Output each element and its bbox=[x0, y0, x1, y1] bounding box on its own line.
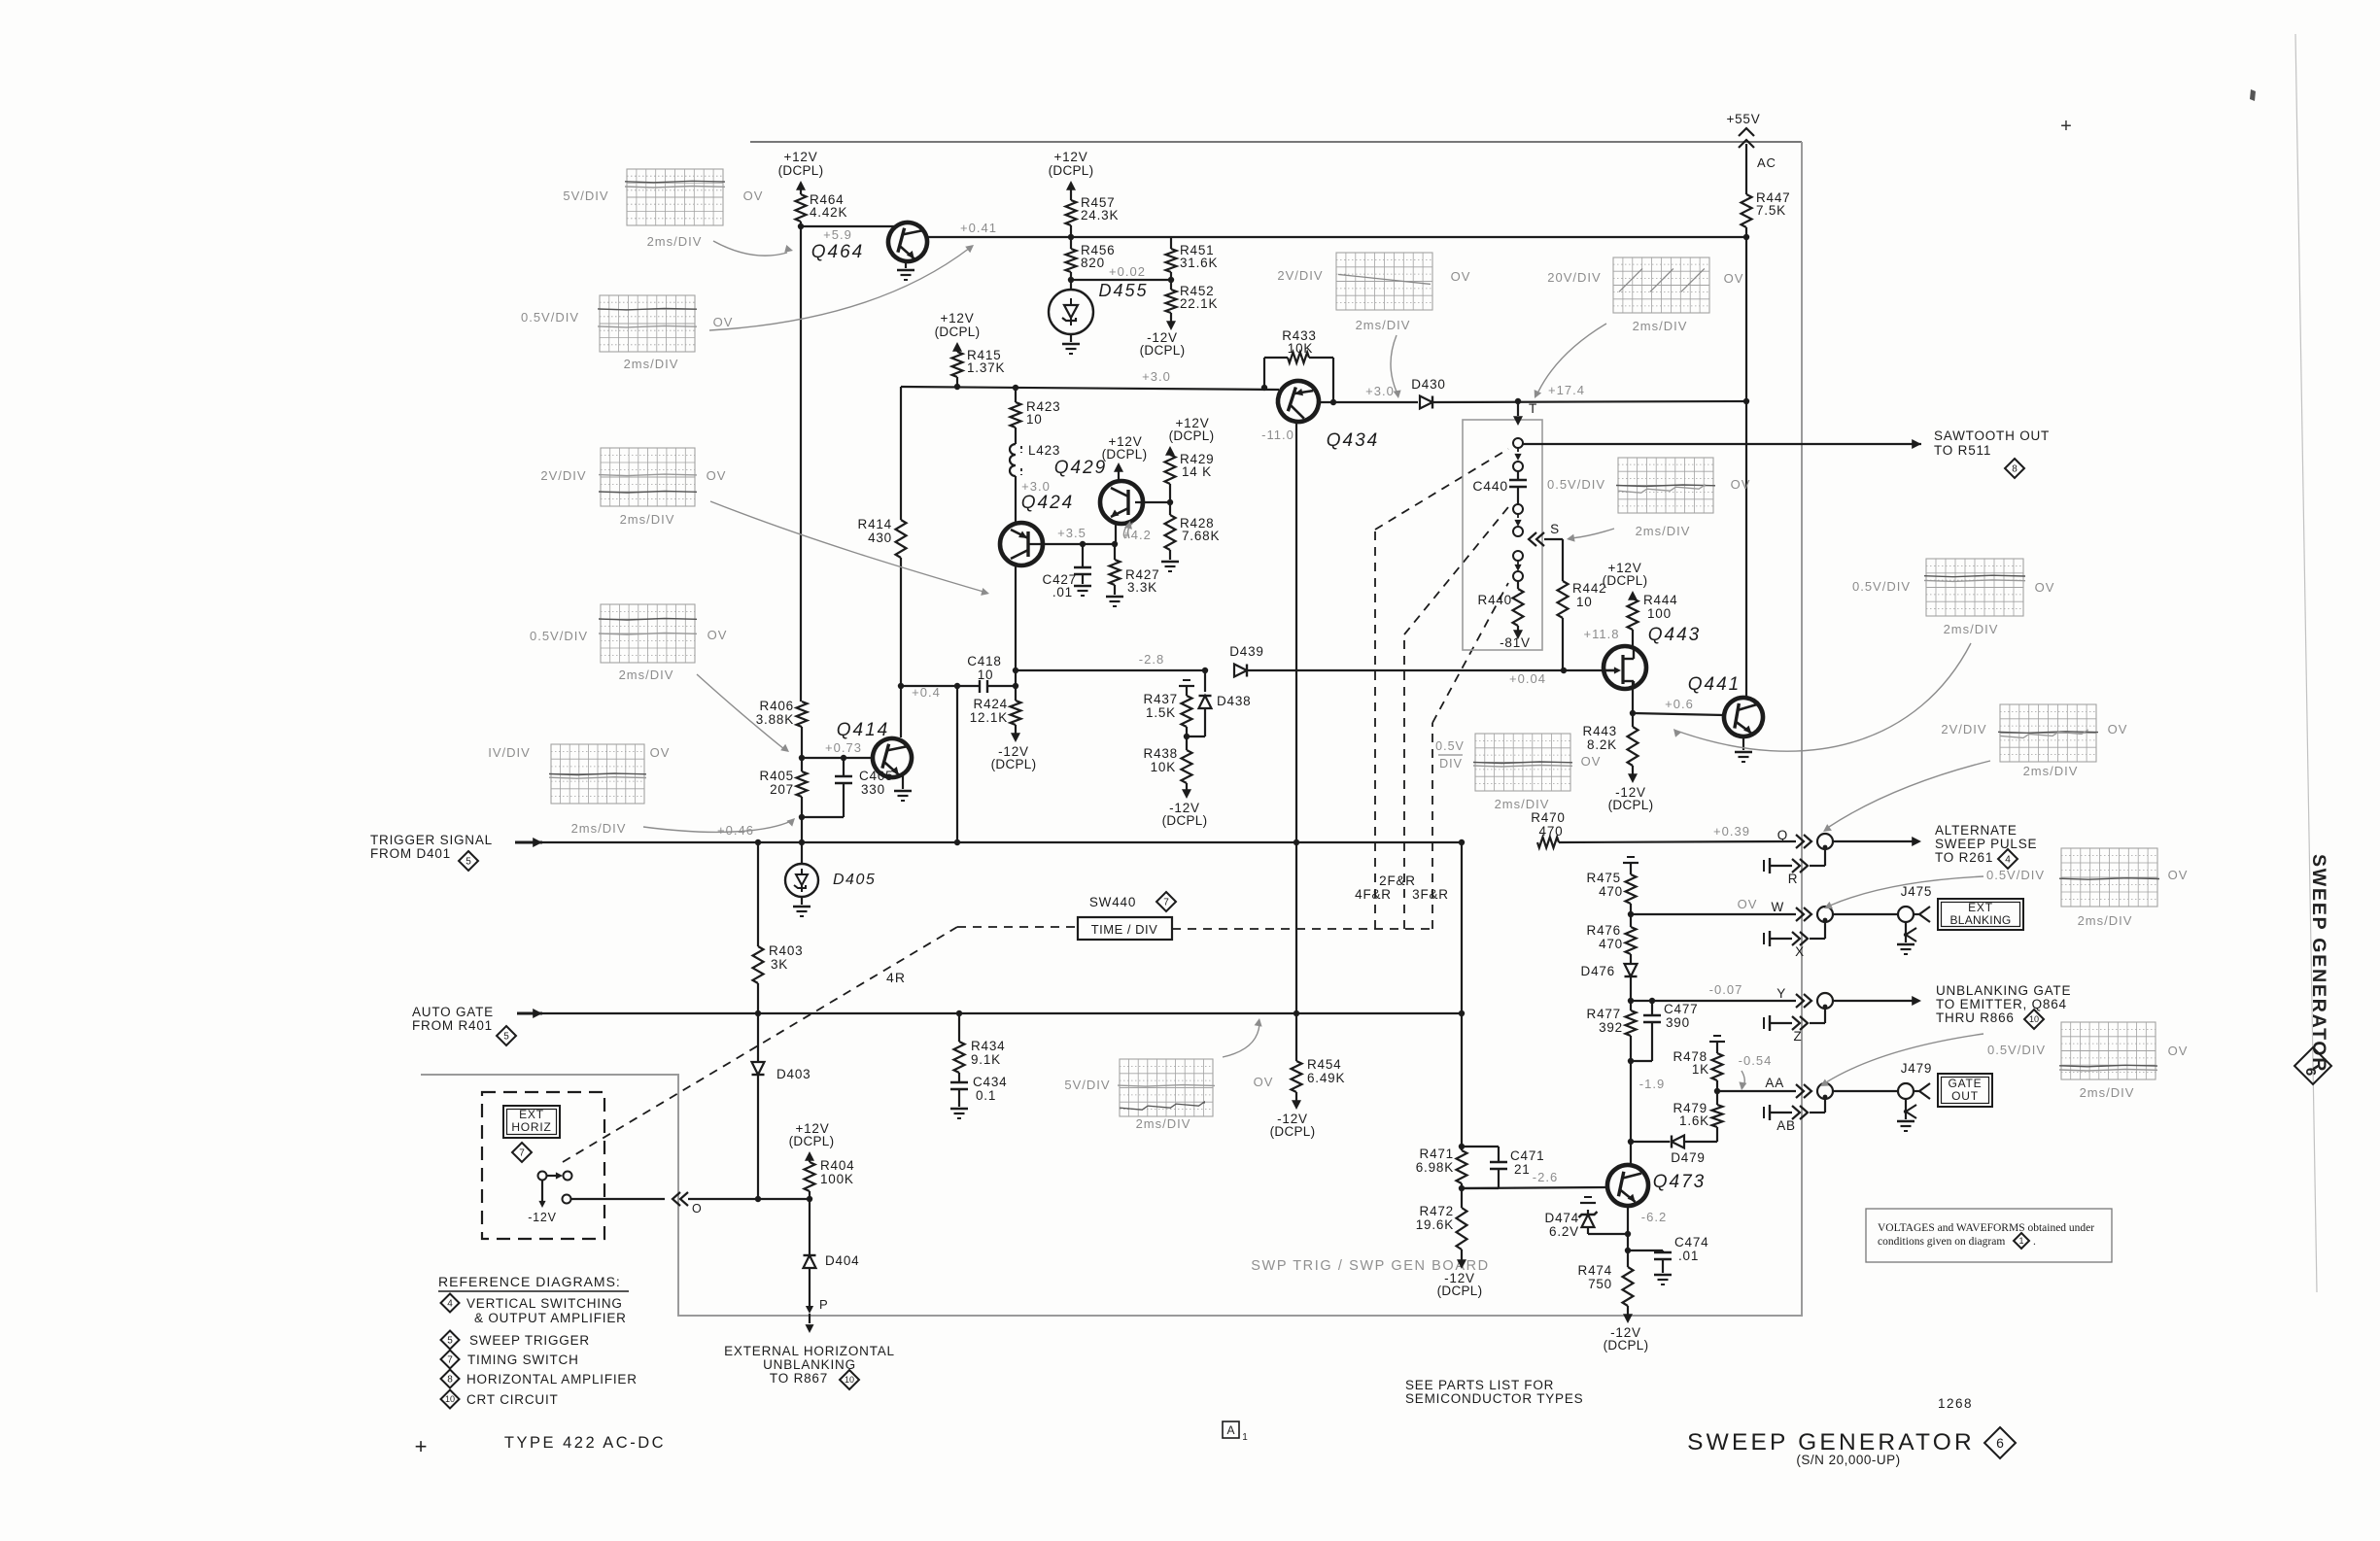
resistor R475 470 bbox=[1626, 874, 1637, 904]
svg-text:+17.4: +17.4 bbox=[1548, 383, 1585, 397]
J479 ground stub bbox=[1905, 1099, 1907, 1119]
waveform G6 2V/DIV bbox=[1336, 253, 1432, 310]
svg-text:207: 207 bbox=[770, 782, 794, 797]
SW440 TIME/DIV switch box bbox=[957, 926, 1076, 928]
svg-text:C418: C418 bbox=[967, 654, 1001, 668]
transistor Q424 bbox=[1000, 523, 1043, 565]
svg-text:+12V: +12V bbox=[1053, 150, 1087, 164]
svg-text:C434: C434 bbox=[973, 1075, 1007, 1089]
svg-text:GATE: GATE bbox=[1949, 1077, 1983, 1090]
resistor R447 7.5K bbox=[1742, 194, 1752, 227]
resistor R428 7.68K bbox=[1169, 502, 1171, 515]
svg-text:D438: D438 bbox=[1217, 694, 1251, 708]
svg-text:+3.0: +3.0 bbox=[1365, 384, 1395, 398]
svg-text:7: 7 bbox=[447, 1355, 453, 1366]
wire down to Q441 collector bbox=[1745, 401, 1747, 698]
svg-text:4: 4 bbox=[447, 1299, 453, 1310]
svg-text:R471: R471 bbox=[1420, 1147, 1454, 1161]
svg-text:VERTICAL SWITCHING: VERTICAL SWITCHING bbox=[466, 1296, 623, 1311]
svg-text:R414: R414 bbox=[858, 517, 892, 531]
Q443 source to +0.6 node bbox=[1632, 682, 1634, 713]
svg-text:10: 10 bbox=[845, 1375, 854, 1385]
svg-text:J479: J479 bbox=[1901, 1061, 1932, 1076]
svg-text:OV: OV bbox=[1724, 271, 1744, 286]
svg-text:AC: AC bbox=[1757, 155, 1776, 170]
svg-text:SWEEP PULSE: SWEEP PULSE bbox=[1935, 837, 2037, 851]
Q414 collector riser / R414 bbox=[900, 387, 902, 520]
riser from +0.4 to trigger line bbox=[956, 686, 958, 842]
svg-text:OV: OV bbox=[713, 315, 734, 329]
diode D403 bbox=[757, 1013, 759, 1062]
svg-text:2ms/DIV: 2ms/DIV bbox=[620, 512, 675, 527]
svg-text:4.42K: 4.42K bbox=[810, 205, 847, 220]
svg-text:SEMICONDUCTOR TYPES: SEMICONDUCTOR TYPES bbox=[1405, 1391, 1583, 1406]
zener D474 6.2V bbox=[1588, 1233, 1628, 1235]
svg-text:6.2V: 6.2V bbox=[1549, 1224, 1579, 1239]
svg-text:R476: R476 bbox=[1587, 923, 1621, 938]
svg-text:+12V: +12V bbox=[940, 311, 974, 325]
board edge connector Q bbox=[1796, 835, 1804, 848]
svg-text:10K: 10K bbox=[1288, 341, 1313, 356]
base line +3.5 bbox=[1028, 543, 1115, 545]
svg-text:(DCPL): (DCPL) bbox=[1603, 573, 1648, 588]
diode D439 bbox=[1234, 665, 1247, 677]
svg-text:R477: R477 bbox=[1587, 1007, 1621, 1021]
connector stub R bbox=[1763, 860, 1765, 872]
base wire to Q414 bbox=[802, 757, 874, 759]
svg-text:10K: 10K bbox=[1151, 760, 1176, 774]
svg-text:SAWTOOTH OUT: SAWTOOTH OUT bbox=[1934, 428, 2050, 443]
A1 assembly mark bbox=[1223, 1421, 1239, 1438]
svg-text:EXT: EXT bbox=[1968, 901, 1993, 914]
capacitor C474 .01 bbox=[1628, 1250, 1663, 1251]
svg-text:ALTERNATE: ALTERNATE bbox=[1935, 823, 2018, 838]
dashed switch risers 4F&R 2F&R 3F&R bbox=[1374, 530, 1376, 929]
svg-text:CRT CIRCUIT: CRT CIRCUIT bbox=[466, 1392, 559, 1407]
switch contacts bbox=[538, 1172, 547, 1181]
svg-text:R440: R440 bbox=[1478, 593, 1512, 607]
R475 network down to connectors bbox=[1627, 856, 1635, 858]
svg-text:(DCPL): (DCPL) bbox=[1270, 1124, 1316, 1139]
svg-text:14 K: 14 K bbox=[1182, 464, 1212, 479]
resistor R470 470 bbox=[1537, 838, 1559, 848]
EXT BLANKING box bbox=[1938, 899, 2023, 930]
svg-text:(DCPL): (DCPL) bbox=[1162, 813, 1208, 828]
resistor R415 1.37K bbox=[952, 352, 963, 377]
svg-text:1.6K: 1.6K bbox=[1679, 1113, 1709, 1128]
svg-text:TO R261: TO R261 bbox=[1935, 850, 1993, 865]
svg-text:1.5K: 1.5K bbox=[1146, 705, 1176, 720]
Q441 emitter ground bbox=[1742, 736, 1744, 750]
svg-text:TO EMITTER, Q864: TO EMITTER, Q864 bbox=[1936, 997, 2067, 1011]
resistor R471 6.98K bbox=[1457, 1150, 1467, 1183]
Y line bbox=[1631, 1000, 1796, 1002]
svg-text:+5.9: +5.9 bbox=[823, 227, 852, 242]
svg-text:conditions given on diagram: conditions given on diagram bbox=[1878, 1236, 2005, 1248]
svg-text:C471: C471 bbox=[1510, 1148, 1544, 1163]
Q414 emitter ground bbox=[902, 773, 904, 789]
Q473 base line bbox=[1462, 1187, 1607, 1188]
wire Q464 collector to R457 (+0.41) bbox=[926, 236, 1746, 238]
svg-text:OV: OV bbox=[743, 188, 764, 203]
svg-text:Q414: Q414 bbox=[837, 720, 889, 740]
AA line bbox=[1717, 1090, 1796, 1092]
svg-text:10: 10 bbox=[978, 668, 994, 682]
wire R464 junction down to R406 bbox=[800, 226, 802, 702]
R471 / C471 hold-off network bbox=[1461, 842, 1463, 1147]
diode D455 (tunnel) bbox=[1070, 280, 1072, 290]
svg-text:VOLTAGES and WAVEFORMS obtaine: VOLTAGES and WAVEFORMS obtained under bbox=[1878, 1222, 2094, 1234]
svg-text:-11.0: -11.0 bbox=[1261, 428, 1294, 442]
waveform G1 5V/DIV bbox=[625, 169, 725, 225]
svg-text:2ms/DIV: 2ms/DIV bbox=[2080, 1085, 2135, 1100]
svg-text:5: 5 bbox=[503, 1032, 509, 1043]
diode D476 bbox=[1625, 964, 1638, 976]
capacitor C405 330 bbox=[843, 758, 845, 776]
svg-text:SWEEP TRIGGER: SWEEP TRIGGER bbox=[469, 1333, 590, 1348]
resistor R456 820 bbox=[1070, 237, 1072, 249]
svg-text:Q434: Q434 bbox=[1327, 430, 1379, 451]
svg-text:UNBLANKING GATE: UNBLANKING GATE bbox=[1936, 983, 2071, 998]
svg-text:2F&R: 2F&R bbox=[1379, 873, 1416, 888]
EXT HORIZ dashed box bbox=[482, 1092, 604, 1239]
svg-text:4F&R: 4F&R bbox=[1355, 887, 1392, 902]
resistor R414 430 bbox=[896, 520, 907, 558]
svg-text:0.5V/DIV: 0.5V/DIV bbox=[1547, 477, 1605, 492]
svg-text:OV: OV bbox=[1451, 269, 1471, 284]
resistor R476 470 bbox=[1630, 914, 1632, 927]
svg-text:6.49K: 6.49K bbox=[1307, 1071, 1345, 1085]
waveform G2 0.5V/DIV bbox=[598, 295, 697, 352]
svg-text:100K: 100K bbox=[820, 1172, 854, 1186]
resistor R437 1.5K bbox=[1182, 696, 1192, 727]
svg-text:HORIZONTAL AMPLIFIER: HORIZONTAL AMPLIFIER bbox=[466, 1372, 638, 1387]
svg-text:-1.9: -1.9 bbox=[1639, 1077, 1665, 1091]
waveform G7 20V/DIV bbox=[1613, 257, 1709, 313]
svg-text:7.5K: 7.5K bbox=[1756, 203, 1786, 218]
resistor R406 3.88K bbox=[797, 702, 808, 727]
svg-text:5V/DIV: 5V/DIV bbox=[563, 188, 608, 203]
Q429 collector to +12V bbox=[1118, 466, 1120, 481]
svg-text:OV: OV bbox=[2108, 722, 2128, 736]
svg-text:R437: R437 bbox=[1144, 692, 1178, 706]
svg-text:22.1K: 22.1K bbox=[1180, 296, 1218, 311]
svg-text:R443: R443 bbox=[1583, 724, 1617, 738]
svg-text:+0.02: +0.02 bbox=[1109, 264, 1146, 279]
svg-text:OV: OV bbox=[650, 745, 671, 760]
resistor R454 6.49K bbox=[1295, 1013, 1297, 1061]
svg-text:392: 392 bbox=[1599, 1020, 1623, 1035]
svg-text:OV: OV bbox=[707, 468, 727, 483]
capacitor C471 21 bbox=[1462, 1146, 1499, 1147]
svg-text:-2.6: -2.6 bbox=[1533, 1170, 1558, 1184]
svg-text:2ms/DIV: 2ms/DIV bbox=[624, 357, 679, 371]
wire C418 to -2.8 line bbox=[1015, 670, 1017, 686]
R478 1K bbox=[1713, 1035, 1721, 1037]
Q434 emitter drop to trigger line bbox=[1295, 422, 1297, 1013]
svg-text:3F&R: 3F&R bbox=[1412, 887, 1449, 902]
svg-text:5V/DIV: 5V/DIV bbox=[1064, 1078, 1110, 1092]
svg-text:OV: OV bbox=[1254, 1075, 1274, 1089]
svg-text:Q443: Q443 bbox=[1648, 625, 1701, 645]
svg-text:X: X bbox=[1795, 944, 1805, 959]
waveform G3 2V/DIV bbox=[599, 448, 697, 506]
svg-text:TIMING SWITCH: TIMING SWITCH bbox=[467, 1353, 579, 1367]
svg-text:OV: OV bbox=[2168, 1044, 2189, 1058]
resistor R424 12.1K bbox=[1015, 686, 1017, 701]
svg-text:BLANKING: BLANKING bbox=[1949, 913, 2011, 927]
Q429 emitter down bbox=[1115, 524, 1117, 544]
resistor R423 10 bbox=[1013, 385, 1018, 391]
resistor R477 392 bbox=[1630, 1001, 1632, 1010]
svg-text:2ms/DIV: 2ms/DIV bbox=[1633, 319, 1688, 333]
svg-text:(DCPL): (DCPL) bbox=[991, 757, 1037, 771]
svg-text:D455: D455 bbox=[1098, 281, 1148, 300]
svg-text:TO R867: TO R867 bbox=[770, 1371, 828, 1386]
svg-text:330: 330 bbox=[861, 782, 885, 797]
VOLTAGES note box bbox=[1866, 1209, 2112, 1262]
wire to board edge bbox=[571, 1198, 665, 1200]
waveform G12 0.5V/DIV bbox=[2059, 1022, 2157, 1079]
resistor R474 750 bbox=[1623, 1267, 1634, 1306]
svg-text:(DCPL): (DCPL) bbox=[1169, 428, 1215, 443]
transistor Q414 bbox=[869, 735, 916, 782]
svg-text:10: 10 bbox=[2029, 1014, 2039, 1024]
svg-text:(DCPL): (DCPL) bbox=[1437, 1284, 1483, 1298]
svg-text:10: 10 bbox=[445, 1394, 455, 1404]
svg-text:12.1K: 12.1K bbox=[970, 710, 1008, 725]
svg-text:Q441: Q441 bbox=[1688, 674, 1741, 695]
svg-text:Z: Z bbox=[1793, 1029, 1802, 1044]
svg-text:2ms/DIV: 2ms/DIV bbox=[1356, 318, 1411, 332]
svg-text:R405: R405 bbox=[760, 769, 794, 783]
transistor Q434 bbox=[1273, 376, 1325, 428]
svg-text:100: 100 bbox=[1647, 606, 1672, 621]
capacitor C418 10 bbox=[979, 680, 981, 693]
inductor L423 bbox=[1010, 444, 1016, 476]
svg-text:SEE PARTS LIST FOR: SEE PARTS LIST FOR bbox=[1405, 1378, 1554, 1392]
svg-text:-6.2: -6.2 bbox=[1641, 1210, 1667, 1224]
resistor R438 10K bbox=[1182, 750, 1192, 783]
svg-text:(DCPL): (DCPL) bbox=[1102, 447, 1148, 462]
svg-text:.01: .01 bbox=[1678, 1249, 1699, 1263]
svg-text:L423: L423 bbox=[1028, 443, 1060, 458]
svg-text:Q: Q bbox=[1777, 828, 1788, 842]
svg-text:(DCPL): (DCPL) bbox=[935, 325, 981, 339]
svg-text:OV: OV bbox=[2168, 868, 2189, 882]
svg-text:.: . bbox=[2033, 1236, 2036, 1248]
svg-text:7.68K: 7.68K bbox=[1182, 529, 1220, 543]
resistor R443 8.2K bbox=[1632, 713, 1634, 727]
svg-text:+3.0: +3.0 bbox=[1142, 369, 1171, 384]
svg-text:0.5V/DIV: 0.5V/DIV bbox=[530, 629, 588, 643]
svg-text:20V/DIV: 20V/DIV bbox=[1547, 270, 1601, 285]
connector stub Z bbox=[1763, 1017, 1765, 1029]
svg-text:R470: R470 bbox=[1531, 810, 1565, 825]
svg-text:AB: AB bbox=[1776, 1118, 1796, 1133]
svg-text:C477: C477 bbox=[1664, 1002, 1698, 1016]
waveform G11 0.5V/DIV bbox=[2059, 848, 2159, 907]
svg-text:2ms/DIV: 2ms/DIV bbox=[619, 668, 674, 682]
W line bbox=[1631, 913, 1796, 915]
waveform G5 1V/DIV bbox=[549, 744, 646, 804]
svg-text:D476: D476 bbox=[1581, 964, 1615, 978]
diode D479 bbox=[1631, 1141, 1670, 1143]
svg-text:-12V: -12V bbox=[528, 1211, 557, 1224]
svg-text:FROM D401: FROM D401 bbox=[370, 846, 451, 861]
transistor Q473 bbox=[1604, 1161, 1652, 1210]
capacitor C434 0.1 bbox=[958, 1073, 960, 1082]
svg-text:OV: OV bbox=[2035, 580, 2055, 595]
svg-text:Q429: Q429 bbox=[1054, 458, 1107, 478]
svg-text:T: T bbox=[1529, 401, 1537, 416]
svg-text:2ms/DIV: 2ms/DIV bbox=[571, 821, 627, 836]
svg-text:(DCPL): (DCPL) bbox=[1604, 1338, 1649, 1353]
svg-text:470: 470 bbox=[1599, 937, 1623, 951]
svg-text:TRIGGER SIGNAL: TRIGGER SIGNAL bbox=[370, 833, 493, 847]
wire +0.02 to R451/R452 bbox=[1071, 279, 1171, 281]
svg-text:TYPE 422 AC-DC: TYPE 422 AC-DC bbox=[504, 1434, 666, 1452]
svg-text:OUT: OUT bbox=[1951, 1089, 1979, 1103]
svg-text:0.5V/DIV: 0.5V/DIV bbox=[1986, 868, 2045, 882]
svg-text:(DCPL): (DCPL) bbox=[778, 163, 824, 178]
svg-text:2ms/DIV: 2ms/DIV bbox=[1136, 1116, 1191, 1131]
resistor R451 31.6K bbox=[1170, 237, 1172, 249]
svg-text:(DCPL): (DCPL) bbox=[1608, 798, 1654, 812]
waveform G13 5V/DIV bbox=[1118, 1059, 1215, 1116]
svg-text:2ms/DIV: 2ms/DIV bbox=[1636, 524, 1691, 538]
svg-text:10: 10 bbox=[1026, 412, 1043, 427]
svg-text:OV: OV bbox=[1738, 897, 1758, 911]
svg-text:2ms/DIV: 2ms/DIV bbox=[1495, 797, 1550, 811]
resistor R452 22.1K bbox=[1170, 280, 1172, 290]
waveform G9 0.5V/DIV bbox=[1924, 559, 2025, 616]
svg-text:TIME / DIV: TIME / DIV bbox=[1091, 922, 1158, 937]
svg-text:R404: R404 bbox=[820, 1158, 854, 1173]
svg-text:-0.07: -0.07 bbox=[1709, 982, 1743, 997]
svg-text:D403: D403 bbox=[776, 1067, 811, 1081]
wire base Q464 bbox=[801, 225, 896, 227]
svg-text:A: A bbox=[1226, 1423, 1234, 1437]
svg-text:O: O bbox=[692, 1202, 703, 1216]
svg-text:R454: R454 bbox=[1307, 1057, 1341, 1072]
svg-text:Q424: Q424 bbox=[1021, 493, 1074, 513]
svg-text:+4.2: +4.2 bbox=[1122, 528, 1152, 542]
svg-text:+: + bbox=[2060, 116, 2072, 137]
R437 / D438 network bbox=[1204, 670, 1206, 692]
svg-text:D439: D439 bbox=[1229, 644, 1263, 659]
svg-text:3K: 3K bbox=[771, 957, 788, 972]
zener D438 bbox=[1199, 696, 1212, 708]
R433 feedback loop bbox=[1264, 357, 1288, 359]
+3.0 base line bbox=[901, 387, 1279, 390]
svg-text:0.5V/DIV: 0.5V/DIV bbox=[1852, 579, 1911, 594]
transistor Q429 bbox=[1100, 481, 1143, 524]
J475 ground stub bbox=[1905, 922, 1907, 942]
connector stub X bbox=[1763, 933, 1765, 944]
svg-text:D404: D404 bbox=[825, 1253, 859, 1268]
waveform G8 0.5V/DIV bbox=[1616, 458, 1715, 513]
capacitor C440 bbox=[1517, 471, 1519, 480]
svg-text:AA: AA bbox=[1765, 1076, 1784, 1090]
svg-text:+0.6: +0.6 bbox=[1665, 697, 1694, 711]
svg-text:+0.39: +0.39 bbox=[1713, 824, 1750, 839]
svg-text:DIV: DIV bbox=[1439, 757, 1463, 770]
transistor Q441 bbox=[1721, 695, 1766, 739]
svg-text:+0.41: +0.41 bbox=[960, 221, 997, 235]
svg-text:2V/DIV: 2V/DIV bbox=[1941, 722, 1986, 736]
wire R447 down to +17.4 line bbox=[1745, 237, 1747, 401]
resistor R457 24.3K bbox=[1066, 200, 1077, 225]
svg-text:4R: 4R bbox=[886, 970, 906, 985]
svg-text:HORIZ: HORIZ bbox=[511, 1120, 551, 1134]
svg-text:R472: R472 bbox=[1420, 1204, 1454, 1218]
sawtooth takeoff wire bbox=[1523, 443, 1921, 445]
Q434 output line with D430 bbox=[1318, 401, 1418, 403]
switch contact chain bbox=[1513, 438, 1523, 448]
svg-text:5: 5 bbox=[447, 1336, 453, 1347]
4R dashed line bbox=[563, 927, 957, 1162]
Q473 emitter network bbox=[1627, 1206, 1629, 1267]
svg-text:31.6K: 31.6K bbox=[1180, 256, 1218, 270]
svg-text:1.37K: 1.37K bbox=[967, 360, 1005, 375]
resistor R444 100 bbox=[1628, 599, 1638, 630]
svg-text:OV: OV bbox=[1731, 477, 1751, 492]
svg-text:Q473: Q473 bbox=[1653, 1172, 1706, 1192]
svg-text:R424: R424 bbox=[974, 697, 1008, 711]
svg-text:(DCPL): (DCPL) bbox=[789, 1134, 835, 1148]
svg-text:470: 470 bbox=[1599, 884, 1623, 899]
svg-text:+0.4: +0.4 bbox=[912, 685, 941, 700]
callout arrows bbox=[713, 241, 787, 256]
svg-text:2ms/DIV: 2ms/DIV bbox=[647, 234, 703, 249]
svg-text:3.3K: 3.3K bbox=[1127, 580, 1157, 595]
svg-text:+3.0: +3.0 bbox=[1021, 479, 1051, 494]
ground Q464 emitter bbox=[905, 261, 907, 268]
svg-text:0.1: 0.1 bbox=[976, 1088, 996, 1103]
wire to trigger line bbox=[801, 817, 803, 842]
svg-text:D474: D474 bbox=[1545, 1211, 1579, 1225]
svg-text:5: 5 bbox=[466, 857, 471, 868]
svg-text:D479: D479 bbox=[1671, 1150, 1705, 1165]
transistor Q464 bbox=[884, 219, 932, 266]
Q429 base to R429/R428 bbox=[1135, 501, 1170, 503]
svg-text:Y: Y bbox=[1776, 986, 1786, 1001]
svg-text:430: 430 bbox=[868, 531, 892, 545]
svg-text:1: 1 bbox=[2018, 1236, 2023, 1246]
resistor R440 bbox=[1517, 581, 1519, 589]
svg-text:Q464: Q464 bbox=[811, 242, 864, 262]
resistor R429 14K bbox=[1165, 455, 1176, 484]
svg-text:470: 470 bbox=[1539, 824, 1564, 839]
resistor R472 19.6K bbox=[1461, 1188, 1463, 1208]
svg-text:R475: R475 bbox=[1587, 871, 1621, 885]
svg-text:+55V: +55V bbox=[1726, 112, 1760, 126]
svg-text:6: 6 bbox=[1996, 1435, 2004, 1451]
svg-text:R434: R434 bbox=[971, 1039, 1005, 1053]
svg-text:10: 10 bbox=[1576, 595, 1593, 609]
board edge chevrons O bbox=[673, 1192, 680, 1206]
svg-text:-81V: -81V bbox=[1500, 635, 1531, 650]
svg-text:8: 8 bbox=[447, 1375, 453, 1386]
diode D430 bbox=[1420, 396, 1432, 409]
svg-text:19.6K: 19.6K bbox=[1416, 1217, 1454, 1232]
svg-text:8.2K: 8.2K bbox=[1587, 737, 1617, 752]
svg-text:1: 1 bbox=[1242, 1432, 1248, 1443]
resistor R464 4.42K bbox=[796, 194, 807, 222]
-2.8 line to D439 bbox=[1016, 669, 1205, 671]
svg-text:EXT: EXT bbox=[519, 1108, 544, 1121]
